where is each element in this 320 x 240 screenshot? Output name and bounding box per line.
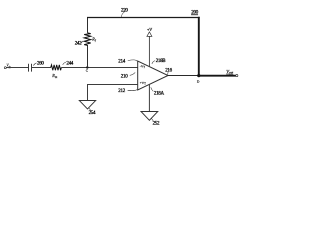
wire op-amp bottom supply to ground 252 xyxy=(148,85,150,112)
wire node C up to resistor Rf xyxy=(87,45,89,68)
wire non-inverting input xyxy=(88,85,138,101)
label 210 op-amp xyxy=(121,72,135,79)
svg-text:212: 212 xyxy=(118,89,125,94)
resistor Rf 242 xyxy=(75,33,97,47)
resistor Rin 244 xyxy=(51,61,74,78)
svg-text:216: 216 xyxy=(165,68,172,73)
op-amp 210 triangle xyxy=(138,61,168,90)
wire 220 top feedback xyxy=(87,8,200,17)
svg-text:+VT: +VT xyxy=(140,81,147,86)
wire Vin to capacitor xyxy=(6,67,28,69)
svg-text:214: 214 xyxy=(118,59,125,64)
wire op-amp output to node D xyxy=(168,75,199,77)
svg-text:220: 220 xyxy=(121,8,128,13)
svg-text:+V: +V xyxy=(147,27,152,32)
svg-text:D: D xyxy=(197,80,200,84)
svg-text:244: 244 xyxy=(66,61,73,66)
label 212 non-inverting input xyxy=(118,89,137,94)
svg-text:260: 260 xyxy=(37,61,44,66)
figure number 200 xyxy=(191,11,198,16)
svg-text:-VT: -VT xyxy=(140,64,146,69)
svg-text:Rf: Rf xyxy=(91,37,97,43)
svg-text:Rin: Rin xyxy=(51,73,57,79)
ground 252 xyxy=(141,112,160,127)
supply +V arrow xyxy=(147,27,152,67)
svg-text:200: 200 xyxy=(191,11,198,16)
node C junction xyxy=(86,66,89,72)
svg-text:C: C xyxy=(86,68,89,72)
label 214 inverting input xyxy=(118,59,137,64)
terminal Vout xyxy=(226,69,238,77)
svg-text:252: 252 xyxy=(153,122,160,127)
svg-text:210: 210 xyxy=(121,74,128,79)
svg-text:254: 254 xyxy=(89,111,96,116)
wire resistor Rf up to top feedback wire xyxy=(87,17,89,33)
wire right vertical from 220 down to node D xyxy=(198,17,200,76)
wire capacitor to resistor Rin xyxy=(32,67,51,69)
label 218A negative supply xyxy=(151,87,165,96)
node D junction xyxy=(197,74,201,84)
label 218B positive supply xyxy=(152,59,166,64)
wire resistor Rin to op-amp inverting input xyxy=(61,67,137,69)
svg-text:218A: 218A xyxy=(154,92,165,97)
wire node D to Vout xyxy=(199,75,236,77)
ground 254 xyxy=(79,101,96,116)
svg-text:218B: 218B xyxy=(156,59,167,64)
svg-text:Vout: Vout xyxy=(226,69,233,75)
label 216 output xyxy=(165,68,172,74)
capacitor 260 xyxy=(29,61,45,71)
terminal Vin xyxy=(4,63,11,68)
svg-text:242: 242 xyxy=(75,41,82,46)
